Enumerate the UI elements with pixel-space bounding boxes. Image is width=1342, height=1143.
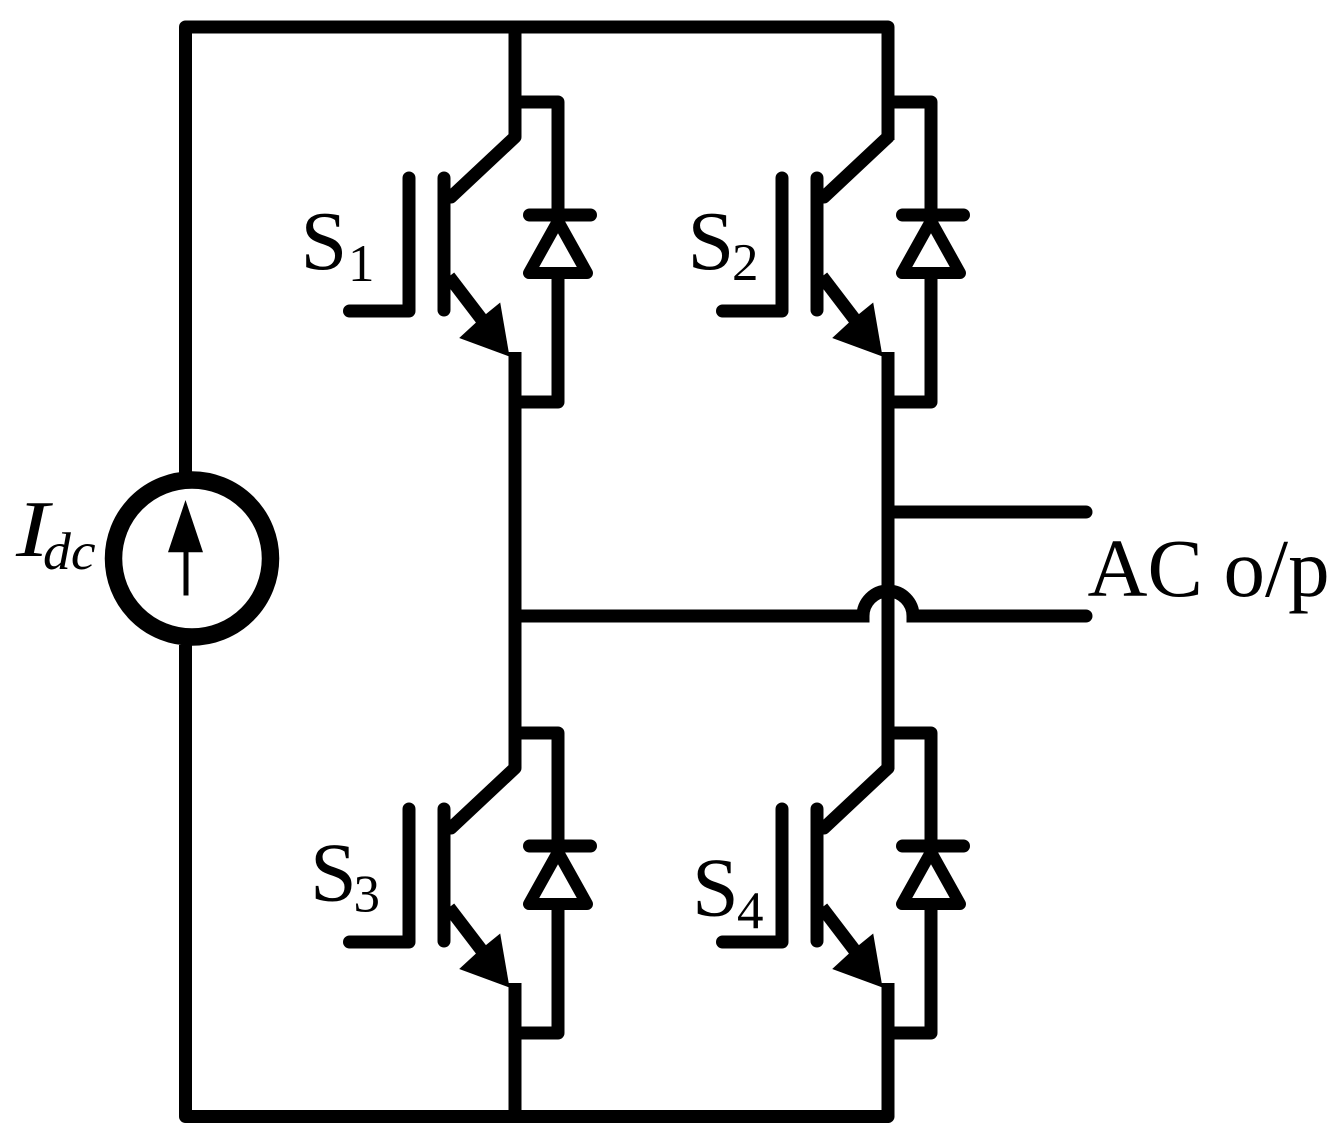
svg-text:S: S [310,827,357,920]
S2 IGBT collector slant and rail [824,137,888,197]
svg-text:S: S [301,195,348,288]
diode D3 top lead wire [515,733,558,847]
wire: left rail lower segment and bottom bus [186,645,889,1117]
diode D1 anode triangle [529,221,587,273]
wire: S4 emitter rail segment [882,983,895,1117]
S4 IGBT gate bar and gate lead [723,809,783,942]
S4 IGBT emitter line [822,908,875,978]
diode D2 anode triangle [902,221,960,273]
diode D3 anode triangle [529,852,587,904]
current source Idc arrow head [168,500,203,552]
svg-text:AC o/p: AC o/p [1088,522,1330,614]
S4 IGBT emitter arrowhead [832,934,882,988]
diode D3 bottom lead wire [515,902,558,1033]
diode D4 anode triangle [902,852,960,904]
svg-text:S: S [688,195,735,288]
wire: S3 emitter rail segment [509,983,522,1117]
diode D2 top lead wire [888,102,931,216]
S4 IGBT collector slant and rail [824,768,888,828]
svg-text:3: 3 [354,866,381,924]
diode D1 bottom lead wire [515,271,558,402]
S2 IGBT body bar [811,178,824,310]
S3 IGBT gate bar and gate lead [350,809,410,942]
S3 IGBT collector slant and rail [451,616,515,828]
diode D4 bottom lead wire [888,902,931,1033]
wire: right-leg midpoint AC lead [888,506,1086,519]
S3 IGBT emitter arrowhead [459,934,509,988]
S2 IGBT emitter line [822,277,875,347]
diode D4 cathode bar [903,840,964,853]
S3 IGBT emitter line [449,908,502,978]
S1 IGBT collector slant and rail [451,27,515,197]
current source Idc arrow stem [184,550,189,596]
S2 IGBT gate bar and gate lead [723,178,783,311]
S1 IGBT emitter arrowhead [459,303,509,357]
wire: left rail upper segment and top bus [186,27,889,474]
svg-text:4: 4 [737,882,764,940]
svg-text:S: S [692,842,739,935]
S3 IGBT body bar [438,809,451,941]
diode D4 top lead wire [888,733,931,847]
diode D1 cathode bar [530,209,591,222]
S1 IGBT emitter line [449,277,502,347]
svg-text:dc: dc [43,522,96,581]
S2 IGBT emitter arrowhead [832,303,882,357]
diode D2 cathode bar [903,209,964,222]
S4 IGBT body bar [811,809,824,941]
wire: S2 emitter rail segment [882,352,895,769]
diode D3 cathode bar [530,840,591,853]
S1 IGBT body bar [438,178,451,310]
current source Idc circle [114,480,271,637]
wire: S1 emitter rail segment [509,352,522,617]
diode D2 bottom lead wire [888,271,931,402]
svg-text:1: 1 [348,235,375,293]
svg-text:2: 2 [732,234,759,292]
wire: left-leg midpoint to AC terminal with hop over right rail [515,591,1086,616]
S1 IGBT gate bar and gate lead [350,178,410,311]
diode D1 top lead wire [515,102,558,216]
